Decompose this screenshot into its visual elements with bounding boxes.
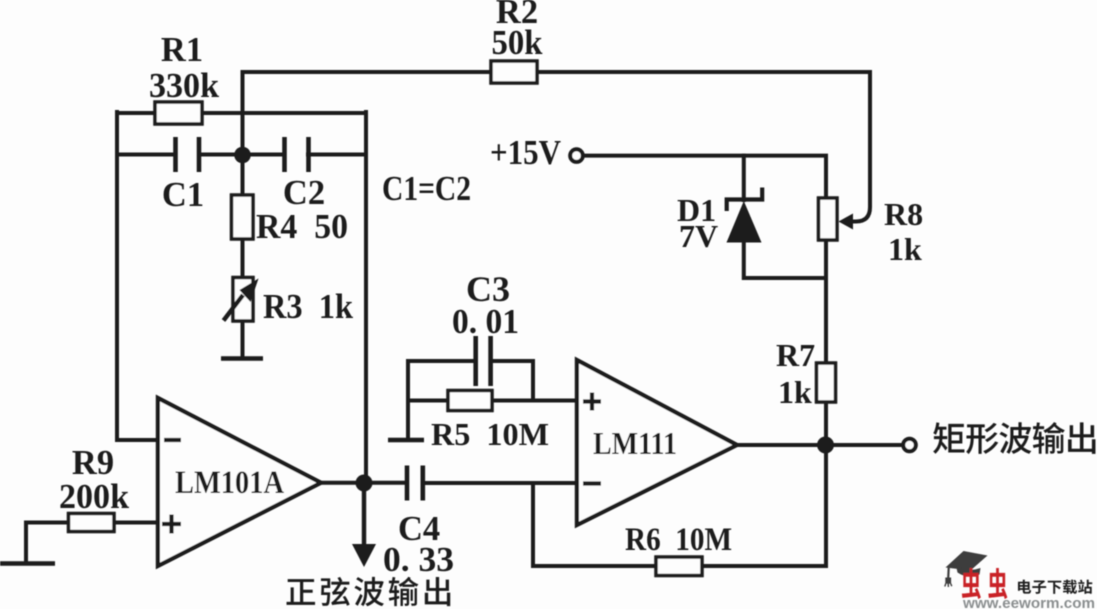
svg-text:50k: 50k <box>492 24 544 62</box>
node A junction dot <box>234 147 251 164</box>
svg-text:R4 50: R4 50 <box>256 208 348 246</box>
U2 minus sign <box>583 481 601 485</box>
square-wave output terminal <box>903 439 916 452</box>
svg-text:7V: 7V <box>679 218 718 254</box>
svg-text:1k: 1k <box>778 374 812 410</box>
wire: feedback tap down from inverting input line <box>531 483 535 566</box>
U1 minus sign <box>164 438 181 442</box>
resistor R1 <box>155 102 202 124</box>
capacitor C4 <box>407 466 423 501</box>
resistor R5 <box>448 391 492 411</box>
ground (R9) <box>0 561 55 566</box>
svg-text:200k: 200k <box>59 478 130 516</box>
sine output node junction dot <box>356 475 373 492</box>
U1 plus sign <box>162 515 181 534</box>
wire: C4 to inverting input of U2 <box>423 481 577 485</box>
wire: C2 to right vertical <box>308 153 366 157</box>
R8 wiper arrowhead <box>839 214 854 230</box>
svg-text:R8: R8 <box>884 196 923 232</box>
svg-text:C1=C2: C1=C2 <box>382 170 471 208</box>
wire: R5 branch <box>408 399 533 403</box>
svg-text:R9: R9 <box>72 444 114 482</box>
svg-text:www.eeworm.com: www.eeworm.com <box>962 596 1095 609</box>
wire: node A up to top rail, across to R8 wiper <box>243 72 871 222</box>
svg-text:C1: C1 <box>162 176 204 214</box>
wire: left vertical to inverting input of U1 <box>117 112 158 440</box>
capacitor C1 <box>176 137 200 172</box>
svg-text:R3 1k: R3 1k <box>263 288 354 326</box>
svg-text:R1: R1 <box>161 31 203 69</box>
svg-text:+15V: +15V <box>490 133 561 172</box>
wire: node A down through R4 to R3 and ground <box>241 155 245 358</box>
svg-text:R6 10M: R6 10M <box>625 522 732 558</box>
sine output arrow <box>362 483 366 546</box>
resistor R9 <box>69 514 115 532</box>
watermark: site name characters <box>1018 580 1031 594</box>
svg-text:R7: R7 <box>776 337 815 373</box>
potentiometer R8 <box>819 198 838 240</box>
resistor R4 <box>232 195 254 239</box>
R3 adjustment arrow <box>224 295 244 321</box>
op-amp U1 LM101A <box>158 398 321 566</box>
svg-text:1k: 1k <box>888 231 922 267</box>
svg-text:LM101A: LM101A <box>175 465 284 501</box>
wire: R1 top branch <box>117 111 366 115</box>
wire: R9 left to ground <box>24 523 28 563</box>
ground (below R3) <box>221 356 263 361</box>
watermark: graduation cap logo <box>945 551 988 587</box>
wire: C3/R5 left side down to ground <box>406 361 410 438</box>
svg-text:C2: C2 <box>283 174 325 212</box>
zener diode D1 <box>727 188 763 212</box>
wire: R8/R7 column down to square-wave node <box>824 278 828 445</box>
capacitor C2 <box>285 137 309 172</box>
wire: R9 to non-inverting input of U1 <box>26 521 158 525</box>
svg-text:R5 10M: R5 10M <box>431 416 549 452</box>
square output node junction dot <box>817 437 834 454</box>
wire: D1 anode to bottom rail to R8 column <box>744 242 826 278</box>
resistor R7 <box>817 363 836 402</box>
wire: U1 output to C4 <box>321 481 407 485</box>
wire: +15V rail to R8 top <box>584 156 827 199</box>
resistor R6 <box>656 557 702 576</box>
watermark: red characters <box>962 568 981 599</box>
resistor R2 <box>491 61 537 83</box>
+15V terminal <box>570 149 583 162</box>
wire: U2 output to square-wave terminal <box>737 443 902 447</box>
svg-text:0. 33: 0. 33 <box>383 541 454 579</box>
wire: R5 node to non-inverting input of U2 <box>533 399 577 403</box>
wire: C3/R5 top branch <box>408 359 533 363</box>
op-amp U2 LM111 <box>577 360 737 525</box>
svg-text:330k: 330k <box>149 67 220 105</box>
wire: R8 bottom to D1 bottom rail <box>824 240 828 278</box>
wire: C3/R5 right side <box>531 361 535 401</box>
resistor R3 (adjustable) <box>233 278 253 322</box>
svg-text:0. 01: 0. 01 <box>452 303 519 341</box>
wire: C1-C2 branch left <box>117 153 175 157</box>
wire: D1 branch from +15V rail <box>742 156 746 200</box>
wire: bottom feedback through R6 up to square-wave node <box>533 445 826 566</box>
label square-wave output (Chinese) <box>933 422 964 453</box>
capacitor C3 <box>476 336 491 386</box>
wire: right vertical from R1 branch to U1 output node <box>364 112 368 483</box>
wire: C1 to node A <box>199 153 284 157</box>
ground (C3/R5) <box>388 438 424 443</box>
U2 plus sign <box>583 393 601 411</box>
label sine-wave output (Chinese) <box>287 579 316 605</box>
svg-text:LM111: LM111 <box>593 425 677 461</box>
